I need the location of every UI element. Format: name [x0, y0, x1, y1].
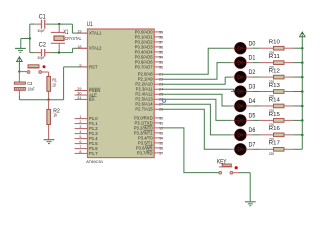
junction node rail row 3: [301, 90, 304, 93]
svg-text:31: 31: [77, 96, 81, 100]
IC U1 AT89C51 body: [88, 29, 155, 158]
wire LED D4 to R14: [246, 105, 252, 107]
pin 23 P2.2/A10 (right stub + number + label): [154, 83, 162, 85]
svg-text:R13: R13: [269, 83, 280, 89]
junction node rail row 6: [301, 134, 304, 137]
junction node left rail to ground: [29, 37, 31, 39]
pin 34 P0.5/AD5 (right stub + number + label): [154, 56, 162, 58]
wire P2.1 to LED D1: [162, 63, 231, 80]
ground (KEY section): [245, 201, 256, 203]
svg-text:29: 29: [77, 87, 81, 91]
junction node reset top: [18, 70, 20, 72]
pin 16 P3.6/WR (right stub + number + label): [154, 147, 162, 149]
wire P2.4 to LED D4: [162, 94, 231, 106]
wire P2.6 to LED D6: [162, 104, 231, 135]
pin 9 RST (left stub + number + label): [78, 66, 88, 68]
pin 18 XTAL2 (left stub + number + label): [78, 47, 88, 49]
svg-text:15: 15: [159, 141, 163, 145]
pin 10 P3.0/RXD (right stub + number + label): [154, 117, 162, 119]
svg-text:C2: C2: [39, 42, 47, 49]
svg-text:R14: R14: [269, 97, 281, 103]
pin 24 P2.3/A11 (right stub + number + label): [154, 88, 162, 90]
svg-text:P0.7/AD7: P0.7/AD7: [135, 64, 154, 69]
svg-text:220: 220: [269, 152, 274, 156]
svg-text:35: 35: [159, 50, 163, 54]
wire +5V rail vertical: [301, 37, 303, 149]
svg-text:37: 37: [159, 40, 163, 44]
svg-text:34: 34: [159, 55, 163, 59]
junction node rail row 0: [301, 47, 304, 50]
LED D5: [235, 115, 247, 127]
wire KEY to ground: [233, 172, 239, 174]
svg-text:30pF: 30pF: [37, 29, 45, 33]
wire R14 to +5V rail: [284, 105, 294, 107]
pin 4 P1.3 (left stub + number + label): [75, 133, 88, 135]
svg-text:10: 10: [159, 116, 163, 120]
pin 15 P3.5/T1 (right stub + number + label): [154, 142, 162, 144]
wire P2.3 to LED D3: [162, 89, 234, 91]
svg-text:14: 14: [159, 136, 163, 140]
pin 27 P2.6/A14 (right stub + number + label): [154, 103, 162, 105]
svg-text:R11: R11: [269, 54, 280, 60]
svg-text:5: 5: [79, 135, 81, 139]
blue cursor marker near pin 26: [163, 99, 166, 102]
wire power to reset node: [18, 62, 20, 72]
svg-text:R17: R17: [269, 141, 280, 147]
push-button RESET: [19, 71, 27, 73]
pin 22 P2.1/A9 (right stub + number + label): [154, 78, 162, 80]
resistor R12: [274, 75, 285, 79]
resistor R17: [274, 147, 285, 151]
resistor R11: [274, 61, 285, 65]
wire R12 to +5V rail: [284, 76, 294, 78]
LED D4: [235, 100, 247, 112]
pin 19 XTAL1 (left stub + number + label): [78, 32, 88, 34]
svg-text:10uF: 10uF: [28, 86, 35, 91]
pin 17 P3.7/RD (right stub + number + label): [154, 152, 162, 154]
resistor R1: [47, 76, 51, 91]
svg-text:D2: D2: [249, 69, 256, 76]
pin 12 P3.2/INT0 (right stub + number + label): [154, 127, 162, 129]
resistor R15: [274, 119, 285, 123]
svg-text:6: 6: [79, 140, 81, 144]
svg-text:AT89C51: AT89C51: [86, 159, 103, 164]
svg-text:X1: X1: [63, 30, 68, 36]
svg-text:U1: U1: [87, 21, 93, 28]
wire R15 to +5V rail: [284, 119, 294, 121]
pin 3 P1.2 (left stub + number + label): [75, 128, 88, 130]
pin 21 P2.0/A8 (right stub + number + label): [154, 73, 162, 75]
wire R16 to +5V rail: [284, 134, 294, 136]
junction node rail row 5: [301, 119, 304, 122]
svg-text:P3.7/RD: P3.7/RD: [137, 150, 153, 155]
ground (crystal section): [15, 47, 26, 49]
wire R11 to +5V rail: [284, 62, 294, 64]
svg-text:220: 220: [52, 83, 56, 88]
svg-text:3: 3: [79, 125, 81, 129]
svg-text:P2.7/A15: P2.7/A15: [135, 107, 153, 112]
resistor R13: [274, 90, 285, 94]
wire LED D0 to R10: [246, 47, 252, 49]
resistor R16: [274, 133, 285, 137]
resistor R2: [48, 100, 50, 110]
svg-text:XTAL2: XTAL2: [89, 46, 102, 51]
wire LED D6 to R16: [246, 134, 252, 136]
wire RST net (reset node to chip pin9): [19, 99, 63, 101]
pin 14 P3.4/T0 (right stub + number + label): [154, 137, 162, 139]
pin 25 P2.4/A12 (right stub + number + label): [154, 93, 162, 95]
wire R17 to +5V rail: [284, 148, 294, 150]
svg-text:38: 38: [159, 35, 163, 39]
wire ground branch: [21, 38, 30, 40]
svg-text:33: 33: [159, 60, 163, 64]
junction node at C1/X1 top: [58, 23, 60, 25]
svg-text:11: 11: [159, 121, 163, 125]
junction node rail row 2: [301, 76, 304, 79]
svg-text:R15: R15: [269, 112, 280, 118]
power +5V arrow (LED rail): [301, 32, 303, 34]
pin 28 P2.7/A15 (right stub + number + label): [154, 108, 162, 110]
svg-text:30: 30: [77, 92, 81, 96]
pin 13 P3.3/INT1 (right stub + number + label): [154, 132, 162, 134]
ground (reset section): [44, 139, 55, 141]
pin 33 P0.6/AD6 (right stub + number + label): [154, 61, 162, 63]
pin 29 PSEN (left stub + number + label): [75, 90, 88, 92]
svg-text:XTAL1: XTAL1: [89, 31, 102, 36]
svg-text:D7: D7: [249, 141, 256, 148]
wire P2.2 to LED D2: [162, 77, 231, 84]
svg-text:C1: C1: [39, 13, 46, 20]
pin 26 P2.5/A13 (right stub + number + label): [154, 98, 162, 100]
svg-text:4: 4: [79, 130, 81, 134]
LED D0: [235, 42, 247, 54]
svg-text:C3: C3: [27, 81, 32, 86]
capacitor C1: [35, 23, 41, 25]
resistor R14: [274, 104, 285, 108]
svg-text:1k: 1k: [53, 113, 57, 118]
svg-text:RST: RST: [89, 64, 98, 69]
push-button KEY: [222, 164, 231, 166]
wire P2.0 to LED D0: [162, 48, 231, 74]
junction node R1/R2/C3: [47, 99, 49, 101]
pin 2 P1.1 (left stub + number + label): [75, 123, 88, 125]
svg-text:39: 39: [159, 30, 163, 34]
pin 5 P1.4 (left stub + number + label): [75, 138, 88, 140]
pin 11 P3.1/TXD (right stub + number + label): [154, 122, 162, 124]
svg-text:CRYSTAL: CRYSTAL: [65, 36, 83, 41]
svg-text:D1: D1: [249, 55, 256, 62]
wire LED D7 to R17: [246, 148, 252, 150]
capacitor C3 (electrolytic): [18, 72, 20, 82]
wire LED D2 to R12: [246, 76, 252, 78]
wire LED D1 to R11: [246, 62, 252, 64]
svg-text:13: 13: [159, 131, 163, 135]
junction node rail row 4: [301, 105, 304, 108]
pin 36 P0.3/AD3 (right stub + number + label): [154, 46, 162, 48]
power +5V arrow (reset section): [18, 57, 20, 59]
svg-text:17: 17: [159, 151, 163, 155]
pin 30 ALE (left stub + number + label): [75, 94, 88, 96]
wire LED D5 to R15: [246, 119, 252, 121]
svg-text:P1.7: P1.7: [89, 151, 98, 156]
wire left rail (C1-C2 vertical): [29, 24, 31, 52]
svg-text:EA: EA: [89, 97, 95, 102]
pin 37 P0.2/AD2 (right stub + number + label): [154, 41, 162, 43]
junction node rail row 1: [301, 61, 304, 64]
LED D7: [235, 143, 247, 155]
resistor R10: [274, 46, 285, 50]
wire P2.7 to LED D7: [162, 109, 231, 149]
svg-text:1: 1: [79, 115, 81, 119]
svg-text:R16: R16: [269, 126, 280, 132]
wire LED D3 to R13: [246, 91, 252, 93]
pin 8 P1.7 (left stub + number + label): [75, 152, 88, 154]
wire XTAL2 net (C2/X1 bottom to chip pin18): [51, 52, 73, 54]
pin 1 P1.0 (left stub + number + label): [75, 118, 88, 120]
LED D2: [235, 71, 247, 83]
wire R10 to +5V rail: [284, 47, 294, 49]
wire XTAL1 net (C1 right to chip pin19): [46, 23, 73, 25]
pin 32 P0.7/AD7 (right stub + number + label): [154, 66, 162, 68]
wire R13 to +5V rail: [284, 91, 294, 93]
crystal X1: [58, 24, 60, 32]
svg-text:8: 8: [79, 150, 81, 154]
wire P3.2/INT0 to KEY: [162, 128, 220, 173]
svg-text:D4: D4: [249, 98, 256, 105]
svg-text:D5: D5: [249, 113, 256, 120]
svg-text:36: 36: [159, 45, 163, 49]
junction node at C2/X1 bottom: [58, 51, 60, 53]
svg-text:30pF: 30pF: [37, 56, 45, 60]
pin 7 P1.6 (left stub + number + label): [75, 148, 88, 150]
LED D3: [235, 86, 247, 98]
svg-text:7: 7: [79, 145, 81, 149]
LED D6: [235, 129, 247, 141]
svg-text:32: 32: [159, 65, 163, 69]
capacitor C2: [35, 52, 41, 54]
pin 35 P0.4/AD4 (right stub + number + label): [154, 51, 162, 53]
svg-text:D3: D3: [249, 84, 256, 91]
pin 39 P0.0/AD0 (right stub + number + label): [154, 31, 162, 33]
wire P2.5 to LED D5: [162, 99, 231, 120]
svg-text:D6: D6: [249, 127, 256, 134]
pin 6 P1.5 (left stub + number + label): [75, 143, 88, 145]
pin 31 EA (left stub + number + label): [75, 98, 88, 100]
pin 38 P0.1/AD1 (right stub + number + label): [154, 36, 162, 38]
svg-text:16: 16: [159, 146, 163, 150]
svg-text:2: 2: [79, 120, 81, 124]
svg-text:D0: D0: [249, 40, 256, 47]
svg-text:R12: R12: [269, 68, 280, 74]
LED D1: [235, 57, 247, 69]
svg-text:R10: R10: [269, 40, 280, 46]
